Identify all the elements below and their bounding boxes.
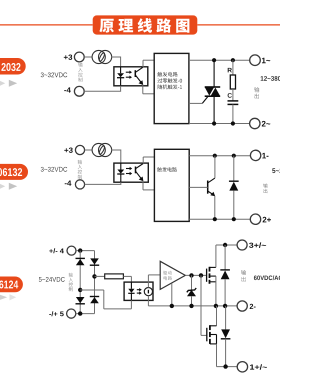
- wire bridge to resistor: [95, 275, 105, 277]
- label +3 c2: [64, 148, 72, 153]
- triac gate wire: [189, 96, 208, 103]
- terminal +3 c1: [74, 52, 84, 62]
- driver amp triangle: [160, 261, 185, 289]
- label -/+5: [49, 311, 64, 316]
- label 1~: [262, 58, 270, 64]
- mid rail c3 (2-): [148, 305, 237, 307]
- label 3~32VDC c1: [41, 73, 68, 78]
- label 5~ c2: [272, 168, 290, 173]
- upper MOSFET Q1: [207, 245, 216, 306]
- trigger box c1: [154, 53, 189, 123]
- trigger box c2: [154, 149, 189, 221]
- snubber resistor R c1: [230, 60, 235, 101]
- bridge diode D1: [76, 258, 85, 265]
- wire collector to trigger box c2: [143, 157, 154, 164]
- optocoupler box c1: [114, 67, 148, 86]
- light arrows c1: [126, 71, 132, 79]
- label C: [228, 93, 232, 98]
- triac c1: [205, 60, 221, 123]
- terminal 1+/~: [237, 362, 247, 372]
- bridge left branch wire: [79, 251, 81, 314]
- wire input bottom c3: [76, 313, 95, 315]
- wire collector to trigger box c1: [143, 60, 154, 67]
- wire +3 to current source: [84, 56, 92, 58]
- bottom rail c1: [189, 123, 250, 125]
- junction bridge BL: [78, 311, 82, 315]
- pill text 2032: [1, 63, 20, 71]
- current source c1: [92, 50, 112, 63]
- junction bridge TL: [78, 248, 82, 252]
- top rail c3: [216, 244, 237, 246]
- chevron arrows 2: [0, 182, 17, 190]
- label 3~32VDC c2: [41, 167, 68, 172]
- wire LED to -4 c2: [85, 182, 122, 184]
- lower MOSFET Q2: [207, 306, 217, 367]
- junction RC bottom: [231, 121, 235, 125]
- label 5~24VDC: [39, 277, 65, 282]
- header rule right: [197, 24, 280, 26]
- model pill 2032: [0, 58, 26, 75]
- terminal +/-4 c3: [67, 246, 76, 255]
- opto LED c3: [128, 282, 134, 300]
- junction diode bottom c3: [223, 304, 227, 308]
- bridge right branch wire: [94, 251, 96, 314]
- current source c2: [92, 143, 112, 156]
- pill text 06132: [0, 168, 22, 176]
- junction zener bottom: [189, 304, 193, 308]
- junction diode bottom rail c3: [223, 364, 227, 368]
- snubber cap C c1: [228, 101, 239, 124]
- input vertical label c1: [78, 63, 82, 82]
- wire current source to opto: [112, 57, 121, 68]
- junction RC top: [231, 58, 235, 62]
- freewheel diode c2: [229, 156, 239, 220]
- terminal -4 c1: [74, 86, 84, 96]
- wire receiver to rail: [147, 296, 149, 306]
- wire gate lower mosfet: [201, 275, 207, 335]
- label +3 c1: [64, 55, 72, 60]
- title text 原理线路图: [99, 18, 189, 33]
- terminal +3 c2: [75, 145, 84, 154]
- upper diode c3: [220, 245, 230, 306]
- terminal -/+5 c3: [67, 309, 76, 318]
- terminal 1~ c1: [250, 55, 261, 66]
- zener diode c3: [187, 275, 196, 306]
- terminal -4 c2: [75, 180, 84, 189]
- terminal 1- c2: [250, 150, 260, 160]
- opto transistor c2: [136, 164, 144, 182]
- wire input top c3: [76, 250, 95, 252]
- bridge diode D3: [76, 297, 85, 304]
- output vertical label c2: [263, 184, 268, 194]
- junction Q1 source: [214, 304, 218, 308]
- terminal 2+ c2: [250, 214, 260, 224]
- wire current source to opto c2: [112, 150, 121, 164]
- label -4 c2: [65, 181, 72, 186]
- optocoupler box c3: [124, 282, 153, 300]
- series resistor c3: [105, 274, 124, 279]
- wire receiver to driver: [148, 275, 160, 288]
- input vertical label c2: [78, 160, 82, 179]
- junction bridge mid-left: [78, 288, 82, 292]
- terminal 2-: [237, 301, 247, 311]
- wire driver output: [185, 274, 206, 276]
- junction transistor bottom c2: [213, 217, 217, 221]
- junction diode bottom c2: [232, 217, 236, 221]
- wire LED return c3: [80, 290, 131, 309]
- label 1+/~: [250, 364, 267, 370]
- label 3+/~: [249, 242, 266, 248]
- opto LED c2: [117, 163, 124, 182]
- trigger box text c1: [158, 72, 183, 89]
- chevron arrows 1: [0, 79, 17, 87]
- opto LED c1: [117, 67, 124, 86]
- bottom rail c2: [189, 218, 250, 220]
- output transistor c2: [189, 156, 215, 220]
- model pill 06132: [0, 164, 28, 180]
- light arrows c2: [126, 167, 132, 175]
- wire emitter to trigger box c2: [143, 181, 154, 190]
- junction zener top: [189, 273, 193, 277]
- terminal 3+/~: [237, 240, 247, 250]
- optocoupler box c2: [114, 163, 148, 182]
- label 60VDC: [254, 275, 283, 280]
- input vertical label c3: [69, 273, 73, 292]
- junction triac bottom: [212, 121, 216, 125]
- label 2~: [262, 121, 270, 127]
- wire emitter to trigger box c1: [143, 85, 154, 94]
- label 12~380 c1: [261, 76, 286, 81]
- wire driver ground: [171, 283, 173, 306]
- header rule left: [0, 24, 93, 26]
- bridge diode D4: [90, 297, 99, 304]
- title banner: [93, 15, 198, 34]
- label 2+: [263, 217, 271, 223]
- light arrows c3: [137, 288, 142, 295]
- junction transistor top c2: [213, 154, 217, 158]
- junction driver gnd: [170, 304, 174, 308]
- wire +3 to current source c2: [85, 149, 93, 151]
- junction gate tap: [199, 273, 203, 277]
- label +/-4: [49, 248, 64, 253]
- wire resistor to opto c3: [123, 276, 131, 282]
- label R: [228, 68, 232, 73]
- trigger box text c2: [157, 167, 177, 172]
- terminal 2~ c1: [250, 118, 260, 128]
- output vertical label c1: [254, 87, 259, 98]
- top rail c2: [189, 155, 250, 157]
- chevron arrows 3: [0, 293, 16, 301]
- model pill 6124: [0, 277, 23, 293]
- junction triac top: [212, 58, 216, 62]
- junction bridge mid-right: [92, 274, 96, 278]
- opto transistor c1: [135, 67, 143, 85]
- bridge diode D2: [90, 258, 99, 265]
- junction diode top c2: [232, 154, 236, 158]
- label 1-: [262, 153, 268, 159]
- label 2-: [250, 304, 256, 309]
- lower diode c3: [221, 306, 231, 367]
- bottom rail c3: [217, 366, 238, 368]
- output vertical label c3: [241, 270, 246, 282]
- wire LED to -4: [84, 86, 121, 92]
- junction diode top c3: [223, 243, 227, 247]
- pill text 6124: [0, 281, 18, 289]
- top rail c1: [189, 59, 250, 61]
- label -4 c1: [64, 87, 71, 92]
- photo receiver c3: [144, 288, 152, 296]
